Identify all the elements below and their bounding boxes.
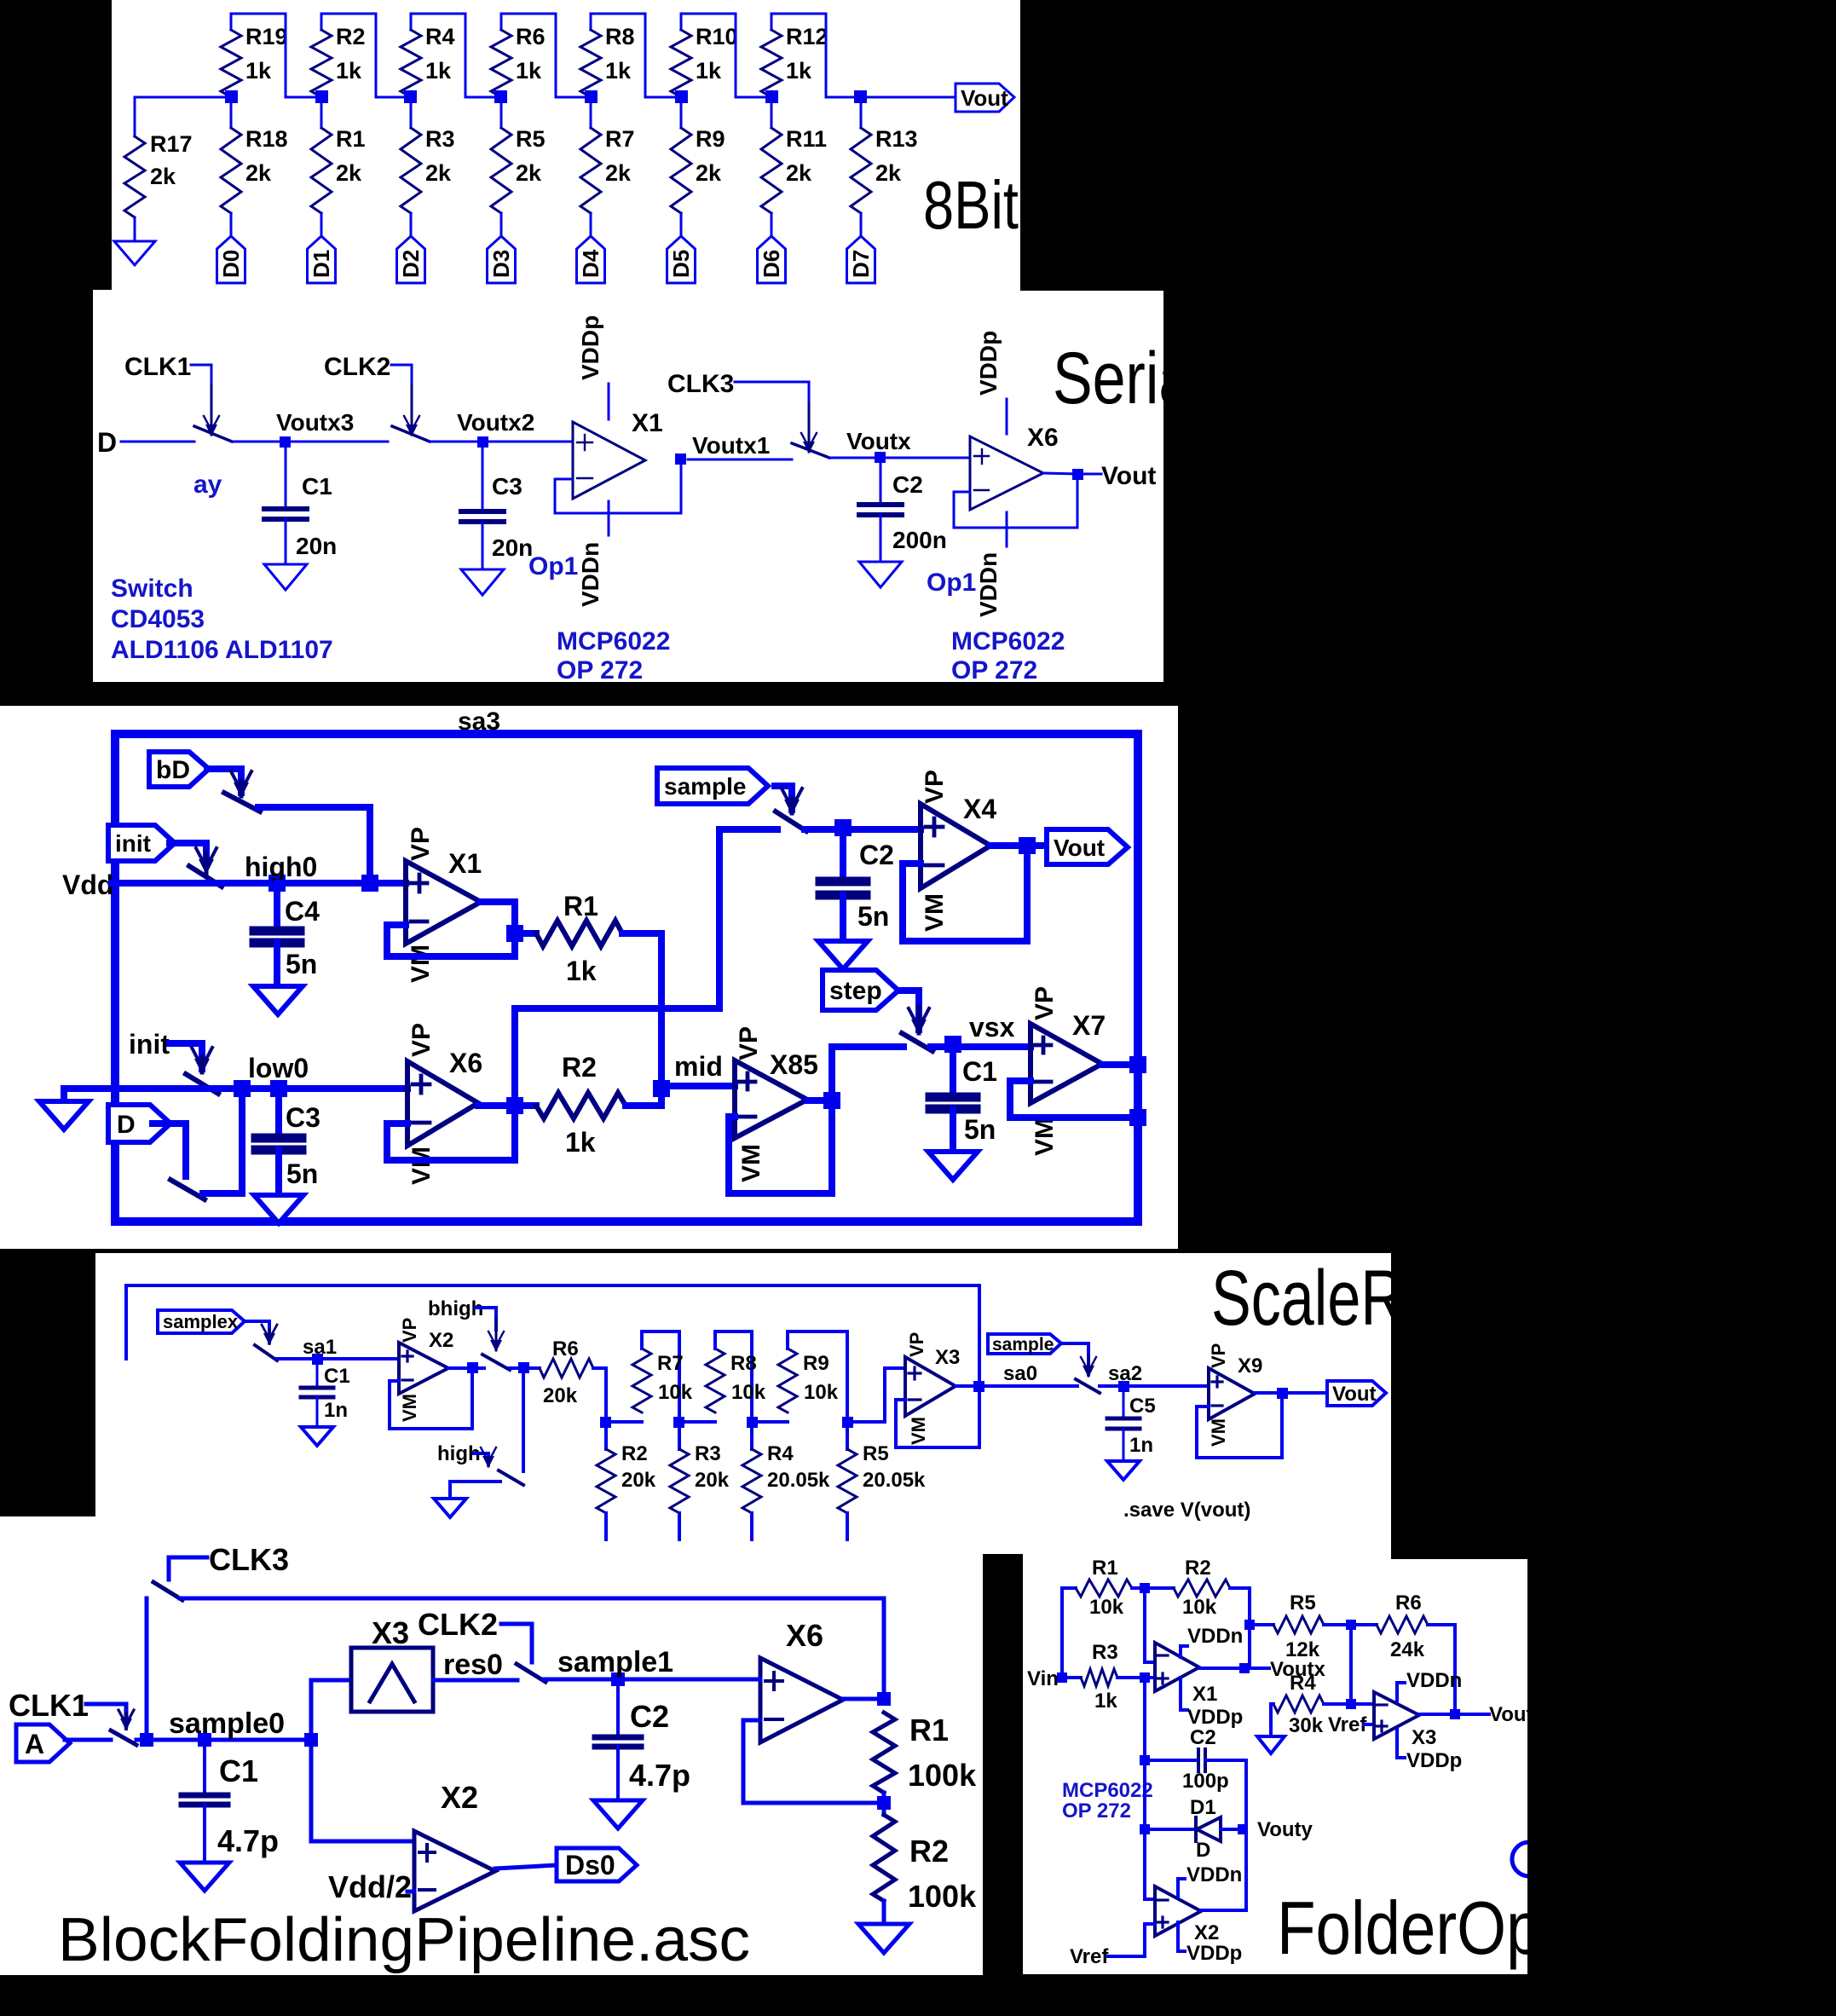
node junction 7 [765, 90, 778, 103]
svg-text:X1: X1 [448, 848, 482, 879]
svg-text:R4: R4 [425, 24, 455, 49]
wire high blade to ground [450, 1482, 500, 1499]
svg-text:res0: res0 [443, 1649, 503, 1681]
svg-text:D: D [97, 427, 117, 458]
svg-text:X2: X2 [429, 1329, 453, 1352]
svg-text:.save V(vout): .save V(vout) [1123, 1499, 1250, 1522]
wire R1 to mid column [622, 933, 661, 1089]
feedback X1 sar [387, 925, 515, 956]
svg-text:VP: VP [407, 827, 435, 861]
port Vout sar [1047, 829, 1128, 864]
svg-text:X4: X4 [963, 794, 996, 824]
node X1 plus rail [1140, 1672, 1150, 1683]
ground C2 (sh) [859, 562, 902, 587]
port D4 [577, 236, 605, 283]
wire X7 out to border [1102, 1061, 1138, 1068]
svg-text:10k: 10k [804, 1381, 839, 1404]
node Vout (sh) [1072, 462, 1156, 490]
ground C3 [461, 569, 504, 595]
wire R6 down to vout [1428, 1625, 1455, 1714]
wire init to switch [170, 843, 206, 863]
wire R8 top bracket to node 6 [591, 14, 681, 97]
node Vouty [1238, 1818, 1313, 1841]
node ladder 1 [600, 1417, 611, 1428]
label MCP6022 second [951, 627, 1065, 685]
svg-text:30k: 30k [1289, 1714, 1324, 1737]
wire X2 scale out [448, 1366, 484, 1370]
label Vdd/2 [328, 1869, 414, 1904]
svg-text:D: D [1196, 1839, 1210, 1862]
svg-text:D1: D1 [1190, 1796, 1216, 1819]
svg-text:X2: X2 [441, 1780, 478, 1815]
svg-text:CD4053: CD4053 [111, 605, 205, 633]
svg-text:C2: C2 [859, 840, 894, 870]
svg-text:20n: 20n [492, 534, 533, 561]
wire X1 sar output [481, 902, 515, 956]
switch high arrow [481, 1447, 496, 1468]
wire D switch to low0 [203, 1089, 242, 1193]
svg-text:Vout: Vout [1489, 1703, 1533, 1726]
svg-text:CLK2: CLK2 [324, 353, 390, 381]
switch CLK1 bf blade [111, 1730, 136, 1745]
svg-text:Op1: Op1 [927, 569, 976, 597]
resistor R1 2k [311, 97, 366, 213]
svg-text:1k: 1k [425, 58, 452, 84]
svg-text:1k: 1k [336, 58, 362, 84]
wire to sa2 [1100, 1384, 1209, 1388]
svg-text:R2: R2 [909, 1834, 949, 1869]
svg-text:1k: 1k [245, 58, 272, 84]
svg-text:Vref: Vref [1328, 1713, 1367, 1736]
svg-text:R10: R10 [696, 24, 738, 49]
wire Voutx1 to switch3 [688, 459, 792, 461]
panel: SAR block schematic background [0, 706, 1178, 1249]
node Vin [1057, 1672, 1067, 1683]
wire sample row [719, 826, 777, 833]
node junction 1 [225, 90, 238, 103]
resistor R17 [124, 131, 193, 217]
wire high branch down [522, 1373, 525, 1471]
svg-text:R9: R9 [803, 1352, 829, 1375]
resistor R11 2k [761, 97, 827, 213]
wire VDDp X6 [975, 331, 1007, 434]
svg-text:Voutx: Voutx [846, 428, 911, 454]
wire rail to X2 [1145, 1829, 1155, 1899]
svg-text:Voutx1: Voutx1 [692, 432, 770, 459]
op-amp X2 bf [414, 1618, 823, 1911]
svg-text:VDDp: VDDp [1406, 1749, 1462, 1772]
wire Vdd to high0 [112, 880, 277, 887]
svg-text:Vout: Vout [961, 85, 1008, 111]
wire R5R6 down [1349, 1625, 1353, 1704]
wire Voutx3 to switch2 [292, 441, 388, 443]
svg-text:1k: 1k [516, 58, 542, 84]
wire bD switch to high0 node [258, 807, 370, 883]
svg-text:C2: C2 [630, 1699, 669, 1734]
wire X3 scale out [956, 1384, 989, 1388]
svg-text:low0: low0 [248, 1053, 309, 1083]
svg-text:VM: VM [399, 1394, 420, 1422]
ground left sar [39, 1101, 89, 1129]
svg-text:sample1: sample1 [557, 1646, 673, 1678]
wire A row [136, 1738, 311, 1742]
node X6 bf out [877, 1692, 891, 1706]
wire X2 fo out [1201, 1909, 1246, 1912]
label bhigh [428, 1297, 483, 1320]
svg-text:Vin: Vin [1027, 1667, 1059, 1690]
svg-text:Vout: Vout [1054, 835, 1105, 861]
svg-text:X1: X1 [632, 409, 663, 437]
wire node8 to Vout [861, 96, 956, 99]
label ay [193, 471, 222, 499]
wire switch3 to Voutx [829, 457, 887, 459]
svg-text:R8: R8 [605, 24, 635, 49]
op-amp X1 (sh) [573, 409, 663, 499]
wire plus rail [1143, 1678, 1146, 1760]
svg-text:Voutx2: Voutx2 [457, 409, 534, 436]
wire high0 to X1 sar [277, 880, 406, 887]
node D1 left [1140, 1824, 1150, 1834]
svg-text:2k: 2k [425, 160, 452, 186]
node sample0 [169, 1707, 285, 1747]
svg-text:20.05k: 20.05k [863, 1469, 926, 1492]
resistor R6 scale [540, 1337, 593, 1407]
svg-text:10k: 10k [1089, 1596, 1124, 1619]
capacitor C5 scale [1107, 1391, 1156, 1461]
svg-text:OP 272: OP 272 [951, 656, 1037, 685]
port init lower stub [129, 1029, 170, 1060]
svg-text:D1: D1 [309, 250, 334, 278]
switch S3 blade [792, 443, 829, 458]
svg-text:R6: R6 [552, 1337, 579, 1360]
wire mid bus [515, 829, 719, 1106]
svg-text:MCP6022: MCP6022 [1062, 1779, 1153, 1802]
capacitor C2 bf [595, 1686, 690, 1800]
label CLK2 bf [418, 1607, 498, 1642]
node Voutx3 [276, 409, 354, 448]
svg-text:C1: C1 [302, 473, 332, 500]
node X2 out [467, 1362, 478, 1373]
wire CLK3 bracket [735, 382, 809, 403]
wire to port D7 [860, 213, 863, 236]
port D sar [108, 1105, 170, 1142]
port Vout scale [1327, 1381, 1386, 1406]
svg-text:VDDn: VDDn [1186, 1863, 1242, 1886]
wire Vin stub [1059, 1676, 1081, 1679]
svg-text:20k: 20k [621, 1469, 656, 1492]
label Op1 second [927, 569, 976, 597]
svg-text:4.7p: 4.7p [217, 1823, 279, 1858]
capacitor C3 sar [256, 1095, 320, 1195]
node C2 junction sar [834, 819, 852, 836]
svg-text:R1: R1 [336, 126, 366, 152]
node R1R2 fo [1140, 1583, 1150, 1593]
wire R2 to mid [626, 1089, 661, 1106]
wire R4 top bracket to node 4 [411, 14, 501, 97]
resistor R1 fo [1076, 1557, 1132, 1619]
port D5 [667, 236, 696, 283]
svg-text:D0: D0 [218, 250, 244, 278]
svg-text:5n: 5n [857, 901, 889, 932]
wire bhigh node to R6 [510, 1366, 540, 1370]
panel: BlockFoldingPipeline schematic background [0, 1516, 983, 1975]
wire R3 to X1 [1117, 1676, 1155, 1679]
svg-text:1n: 1n [324, 1399, 348, 1422]
switch bhigh blade [482, 1355, 510, 1370]
svg-text:Voutx3: Voutx3 [276, 409, 354, 436]
switch init2 arrow [192, 1048, 212, 1074]
svg-text:D5: D5 [668, 250, 694, 278]
svg-text:D7: D7 [848, 250, 874, 278]
node ladder 2 [673, 1417, 684, 1428]
svg-text:X3: X3 [935, 1346, 960, 1369]
svg-text:VP: VP [399, 1318, 420, 1343]
svg-text:R7: R7 [605, 126, 635, 152]
wire R1 to node [882, 1793, 886, 1815]
svg-text:X6: X6 [786, 1618, 823, 1653]
node X7 out border [1129, 1056, 1146, 1073]
wire res0 row [433, 1649, 517, 1681]
svg-text:vsx: vsx [969, 1012, 1015, 1043]
svg-text:100k: 100k [908, 1879, 977, 1914]
resistor R1 sar [515, 891, 622, 986]
svg-text:20.05k: 20.05k [767, 1469, 830, 1492]
wire X85 out up [829, 1047, 835, 1100]
svg-text:R9: R9 [696, 126, 725, 152]
svg-text:R1: R1 [1092, 1557, 1118, 1580]
wire R6 top bracket to node 5 [501, 14, 591, 97]
resistor R13 2k [851, 97, 918, 213]
svg-text:VDDp: VDDp [975, 331, 1002, 396]
op-amp X4 sar [921, 770, 996, 932]
svg-text:Vout: Vout [1332, 1383, 1377, 1406]
wire to port D6 [771, 213, 773, 236]
port sample scale [988, 1334, 1061, 1355]
resistor R12 1k [761, 14, 829, 97]
switch sample scale blade [1076, 1379, 1100, 1393]
node bD-branch junction [361, 875, 378, 892]
svg-text:bD: bD [156, 756, 190, 784]
wire to port D2 [410, 213, 413, 236]
svg-text:2k: 2k [875, 160, 902, 186]
wire X9 out [1255, 1391, 1327, 1395]
wire R19 top bracket to node 2 [231, 14, 321, 97]
wire bhigh bracket [476, 1308, 496, 1330]
switch step blade [902, 1033, 932, 1051]
svg-text:R4: R4 [767, 1442, 794, 1465]
port D0 [217, 236, 245, 283]
svg-text:2k: 2k [516, 160, 542, 186]
diode D1 [1150, 1796, 1238, 1862]
op-amp X2 scale [399, 1318, 453, 1422]
capacitor C4 sar [254, 890, 320, 986]
svg-text:5n: 5n [286, 1158, 318, 1189]
node X6 out junction [506, 1097, 523, 1114]
wire Voutx to X6 [887, 457, 970, 459]
wire D to switch sar [153, 1124, 186, 1176]
node junction 3 [404, 90, 417, 103]
svg-text:X6: X6 [1027, 424, 1059, 452]
wire to port D1 [320, 213, 323, 236]
wire CLK1 bracket [191, 365, 211, 385]
switch bD blade [224, 793, 260, 812]
switch sample arrow [782, 788, 802, 815]
node X3 out [973, 1381, 984, 1392]
wire top wire down [882, 1598, 886, 1699]
wire inv col [1145, 1588, 1155, 1662]
label Op1 first [528, 552, 578, 581]
panel: serial sample-hold schematic background [93, 290, 1163, 682]
op-amp X3 fo [1374, 1692, 1436, 1749]
resistor R3 bottom [670, 1422, 730, 1539]
feedback X4 [903, 852, 1027, 941]
wire R17 to ground [134, 217, 136, 241]
wire high bracket [474, 1453, 488, 1464]
svg-text:R4: R4 [1290, 1672, 1316, 1695]
label Vdd [62, 869, 113, 900]
svg-text:D: D [117, 1111, 136, 1139]
svg-text:2k: 2k [336, 160, 362, 186]
ground C1 sar [928, 1152, 978, 1180]
svg-text:VP: VP [906, 1332, 927, 1357]
node junction 2 [315, 90, 328, 103]
label Vin [1027, 1667, 1059, 1690]
svg-text:VM: VM [1208, 1418, 1229, 1447]
switch S3 control arrow [801, 403, 817, 453]
mask bottom band [983, 1554, 1023, 2016]
wire Vref X2 [1108, 1924, 1155, 1956]
switch CLK3 bf blade [153, 1582, 182, 1600]
port samplex [158, 1310, 245, 1333]
capacitor C3 [461, 442, 533, 569]
op-amp X6 sar [407, 1023, 482, 1185]
node junction 4 [494, 90, 507, 103]
svg-text:VDDp: VDDp [1187, 1706, 1243, 1729]
switch S2 control arrow [404, 385, 419, 436]
port D7 [847, 236, 875, 283]
svg-text:X2: X2 [1194, 1921, 1219, 1944]
wire sa0 row [989, 1362, 1077, 1386]
port init upper [108, 825, 175, 861]
resistor R7 2k [580, 97, 635, 213]
resistor R2 fo [1174, 1557, 1230, 1619]
switch init arrow [196, 848, 217, 875]
node C2 left [1140, 1755, 1150, 1765]
resistor R4 bottom [742, 1422, 830, 1539]
wire init lower [170, 1043, 202, 1069]
wire R10 top bracket to node 7 [681, 14, 771, 97]
resistor R2 bf [873, 1815, 977, 1914]
ground R4 fo [1257, 1736, 1285, 1753]
svg-text:200n: 200n [892, 527, 947, 553]
node mid [653, 1051, 723, 1097]
wire to port D5 [680, 213, 683, 236]
svg-text:R12: R12 [786, 24, 829, 49]
resistor R9 2k [671, 97, 725, 213]
node R5 junction [1244, 1620, 1255, 1630]
port D2 [397, 236, 425, 283]
port sample sar [657, 768, 768, 804]
wire switch1 to Voutx3 [232, 441, 292, 443]
svg-text:step: step [829, 977, 882, 1005]
wire Voutx2 to X1 [489, 441, 573, 443]
label X2 bf [441, 1780, 478, 1815]
wire X4 out [990, 842, 1047, 849]
panel: ScaleRes schematic background [95, 1253, 1391, 1559]
node ladder 4 [842, 1417, 853, 1428]
label MCP6022 fo [1062, 1779, 1153, 1822]
wire X1 fo out [1199, 1667, 1269, 1670]
svg-text:VDDn: VDDn [975, 552, 1002, 617]
svg-text:X3: X3 [372, 1615, 409, 1650]
wire X6 out [1043, 473, 1077, 474]
resistor R8 1k [580, 14, 635, 97]
resistor R9 ladder [752, 1331, 847, 1422]
wire step bracket [900, 991, 919, 1030]
node vsx [944, 1012, 1015, 1053]
capacitor C2 sar [820, 835, 894, 941]
svg-text:2k: 2k [605, 160, 632, 186]
wire R2 to gnd [882, 1901, 886, 1924]
wire to port D3 [500, 213, 503, 236]
op-amp X6 (sh) [970, 424, 1059, 510]
op-amp X6 bf [760, 1658, 843, 1742]
switch bD arrow [231, 771, 251, 798]
switch high blade [499, 1470, 523, 1485]
node X1 out junction [506, 925, 523, 942]
svg-text:ay: ay [193, 471, 222, 499]
resistor R6 fo [1377, 1591, 1428, 1661]
ground R2 bf [858, 1924, 909, 1953]
wire CLK2 bf bracket [501, 1624, 532, 1662]
svg-text:CLK1: CLK1 [124, 353, 191, 381]
svg-text:D4: D4 [578, 249, 603, 278]
svg-text:CLK2: CLK2 [418, 1607, 498, 1642]
node R1R2 bf [877, 1796, 891, 1810]
svg-text:Vref: Vref [1070, 1945, 1109, 1968]
bracket VDDp X1 fo [1181, 1678, 1243, 1729]
svg-text:VP: VP [1208, 1343, 1229, 1368]
wire D to switch1 [121, 441, 194, 443]
wire CLK1 bf bracket [86, 1704, 126, 1725]
svg-text:X7: X7 [1072, 1010, 1106, 1041]
svg-text:init: init [115, 830, 151, 857]
node A junction [140, 1733, 153, 1747]
resistor R4 1k [401, 14, 455, 97]
capacitor C1 scale [301, 1364, 350, 1427]
svg-text:C1: C1 [962, 1056, 997, 1087]
node R5R6 [1346, 1620, 1356, 1630]
svg-text:R2: R2 [1185, 1557, 1211, 1580]
svg-text:R5: R5 [1290, 1591, 1316, 1615]
label .save [1123, 1499, 1250, 1522]
resistor R6 1k [491, 14, 546, 97]
svg-text:R11: R11 [786, 126, 827, 152]
wire samplex to sa1 [277, 1357, 399, 1360]
wire Vin up to R1 [1062, 1588, 1076, 1678]
node X4 out [1019, 837, 1036, 854]
svg-text:C2: C2 [1190, 1726, 1216, 1749]
svg-text:R2: R2 [621, 1442, 648, 1465]
svg-text:VDDp: VDDp [1186, 1942, 1242, 1965]
label CLK2 [324, 353, 390, 381]
svg-text:high0: high0 [245, 852, 317, 882]
svg-text:1k: 1k [566, 956, 597, 986]
op-amp X3 scale [905, 1332, 960, 1445]
ground R17 [114, 241, 155, 265]
svg-text:C3: C3 [492, 473, 523, 500]
switch init blade [189, 866, 222, 887]
